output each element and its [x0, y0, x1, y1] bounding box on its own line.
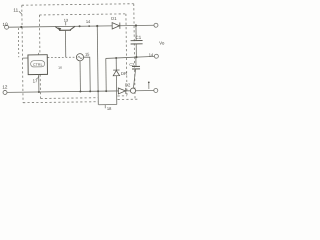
svg-text:C2: C2: [129, 63, 134, 67]
svg-text:10: 10: [3, 22, 9, 27]
svg-text:12: 12: [2, 84, 8, 89]
svg-text:Vo: Vo: [159, 40, 165, 45]
svg-text:CTRL: CTRL: [33, 63, 43, 67]
svg-text:D2: D2: [125, 82, 131, 87]
svg-text:DR: DR: [121, 71, 127, 76]
svg-text:16: 16: [58, 66, 62, 70]
svg-text:17: 17: [33, 78, 39, 83]
svg-text:C1: C1: [135, 35, 141, 40]
svg-text:11: 11: [13, 8, 18, 13]
svg-text:D1: D1: [111, 16, 117, 21]
